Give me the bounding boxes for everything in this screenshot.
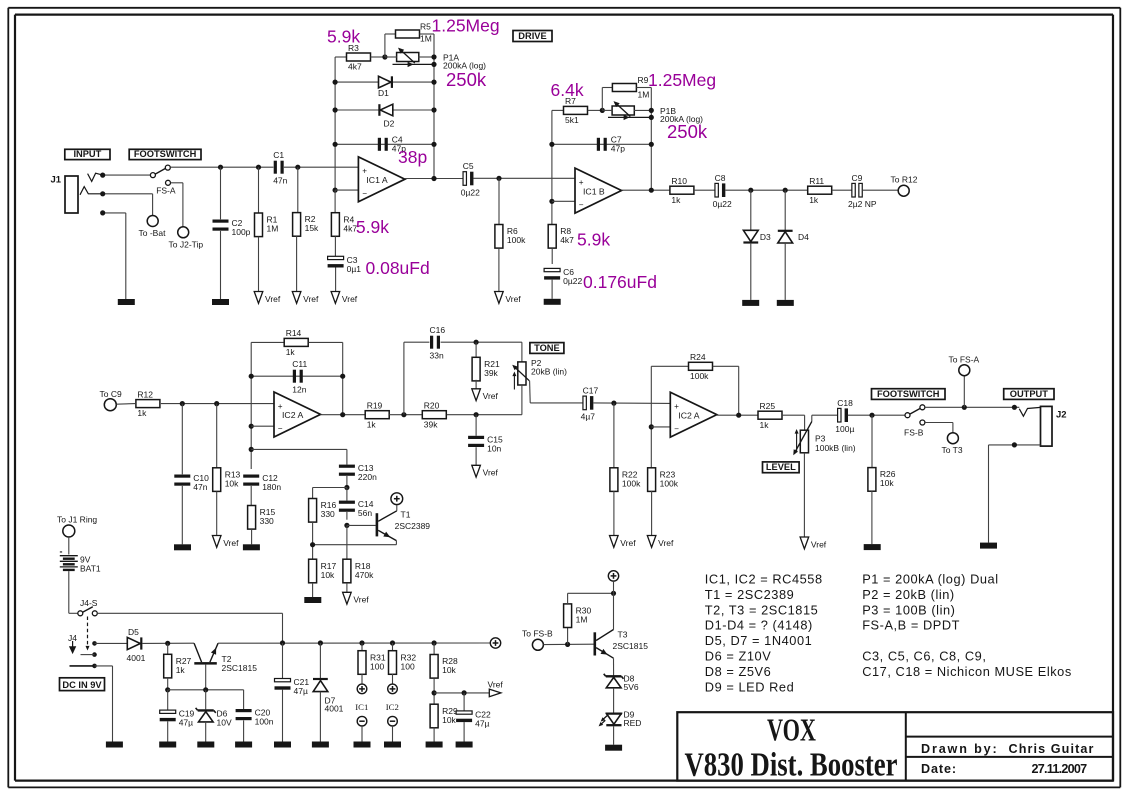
svg-text:T2, T3 = 2SC1815: T2, T3 = 2SC1815 [705, 602, 819, 617]
node IC2B inv [649, 424, 654, 429]
jack J4 pin [70, 641, 76, 653]
ground R17 [304, 597, 321, 603]
node J1 tip [100, 173, 105, 178]
wire C15 up [475, 415, 477, 436]
svg-text:IC2 A: IC2 A [678, 410, 699, 420]
wire R1 dn [258, 237, 260, 292]
wire fb2 col right [650, 88, 652, 191]
terminal To R12 [891, 175, 918, 197]
node P1A wiper [431, 62, 436, 67]
node R27 top [165, 641, 170, 646]
wire J4 to D5 [95, 642, 128, 644]
net Vref R6 [495, 292, 522, 304]
svg-text:−: − [278, 424, 283, 433]
wire R6 up [498, 178, 500, 224]
ground D3 [742, 300, 759, 306]
node C4 r [431, 142, 436, 147]
wire C21 up [282, 643, 284, 679]
net Vref R21 [472, 389, 499, 401]
svg-text:200kA (log): 200kA (log) [443, 61, 486, 71]
svg-text:10k: 10k [321, 570, 335, 580]
wire J4 lever [81, 654, 95, 656]
svg-text:0µ22: 0µ22 [563, 276, 582, 286]
wire C15 dn [475, 447, 477, 465]
resistor R30 [564, 604, 592, 628]
svg-text:DC IN 9V: DC IN 9V [62, 680, 102, 690]
wire C6 dn [551, 280, 553, 299]
svg-text:To -Bat: To -Bat [139, 228, 167, 238]
terminal To J1 Ring [57, 515, 97, 537]
wire fb4 col right [738, 366, 740, 415]
diode D1 [378, 76, 392, 98]
capacitor C18 [835, 398, 854, 434]
wire R5 lead r [420, 33, 435, 35]
svg-text:-: - [60, 547, 63, 557]
wire D4 up [784, 190, 786, 231]
ground C20 [235, 742, 252, 748]
led D9 [599, 710, 642, 728]
svg-text:250k: 250k [446, 69, 487, 90]
svg-text:200kA (log): 200kA (log) [660, 114, 703, 124]
capacitor C16 [430, 325, 446, 361]
svg-text:R10: R10 [671, 176, 687, 186]
J1 ring spring [80, 187, 103, 195]
wire R26 up [871, 415, 873, 468]
node R3 P1A [382, 54, 387, 59]
label FOOTSWITCH 2 [872, 389, 946, 400]
wire R22 dn [613, 491, 615, 536]
capacitor C2 [213, 218, 251, 237]
terminal To FS-B [522, 629, 553, 651]
svg-text:Vref: Vref [620, 538, 636, 548]
terminal To J2-Tip [169, 227, 204, 250]
svg-text:BAT1: BAT1 [80, 563, 101, 573]
svg-text:R12: R12 [137, 389, 153, 399]
wire R17 dn [312, 583, 314, 597]
power pin IC1 - [357, 716, 367, 726]
power pin IC2 - [388, 716, 398, 726]
node R31 top [359, 640, 364, 645]
wire C10 dn [181, 486, 183, 544]
svg-text:TONE: TONE [534, 343, 560, 353]
ground D6 [197, 742, 214, 748]
wire R2 dn [296, 236, 298, 291]
svg-text:100k: 100k [622, 478, 641, 488]
wire C11 row [251, 375, 343, 377]
ground IC1 [354, 742, 371, 748]
wire T3 emit dn [613, 658, 615, 676]
svg-text:56n: 56n [358, 508, 372, 518]
ground D4 [777, 300, 794, 306]
diode D2 [379, 104, 394, 128]
capacitor C1 [273, 150, 287, 186]
svg-text:2SC2389: 2SC2389 [395, 521, 431, 531]
diode D4 [778, 231, 809, 243]
capacitor C3 [328, 255, 362, 274]
svg-text:Vref: Vref [505, 294, 521, 304]
svg-text:1M: 1M [267, 224, 279, 234]
node R30 bot [565, 642, 570, 647]
svg-text:5V6: 5V6 [624, 682, 639, 692]
potentiometer P2 [512, 358, 567, 389]
svg-text:D9 = LED Red: D9 = LED Red [705, 679, 794, 694]
svg-text:C1: C1 [273, 150, 284, 160]
J4 sleeve bar [70, 665, 95, 667]
transistor T2 [194, 643, 257, 673]
wire ring down [152, 194, 154, 216]
node R21 top [474, 340, 479, 345]
svg-text:1M: 1M [420, 34, 432, 44]
node C16 bot [401, 412, 406, 417]
svg-text:Vref: Vref [488, 679, 504, 689]
wire R24 lead l [651, 365, 688, 367]
wire R24 lead r [713, 365, 739, 367]
svg-text:Vref: Vref [811, 539, 827, 549]
capacitor C10 [174, 473, 209, 492]
ground R29 [426, 742, 443, 748]
wire Vref out [434, 692, 489, 694]
resistor R19 [365, 401, 389, 430]
wire T1 emit row [313, 544, 397, 546]
svg-text:38p: 38p [398, 147, 427, 167]
wire C13 dn [346, 476, 348, 488]
svg-text:IC2 A: IC2 A [282, 410, 303, 420]
notes column 2 [862, 572, 1072, 679]
svg-text:To FS-A: To FS-A [949, 354, 980, 364]
svg-text:47n: 47n [273, 176, 287, 186]
wire IC2A inv [251, 425, 274, 427]
svg-text:100k: 100k [690, 371, 709, 381]
svg-text:10V: 10V [217, 717, 232, 727]
capacitor C20 [236, 708, 274, 727]
wire R31 dn [361, 674, 363, 684]
ground C10 [174, 544, 191, 550]
node P1B wiper [649, 115, 654, 120]
wire R14 lead r [309, 341, 343, 343]
svg-text:5.9k: 5.9k [356, 217, 389, 237]
svg-text:1k: 1k [137, 408, 147, 418]
wire P1B lead r [634, 109, 652, 111]
svg-text:1k: 1k [176, 665, 186, 675]
net Vref P3 [800, 537, 827, 549]
terminal To -Bat [139, 216, 167, 239]
svg-text:47µ: 47µ [179, 718, 193, 728]
svg-text:33n: 33n [430, 351, 444, 361]
svg-text:D4: D4 [798, 232, 809, 242]
wire bat dn [68, 571, 70, 613]
node C11 r [340, 374, 345, 379]
resistor R18 [343, 559, 374, 583]
wire main input b [284, 166, 359, 168]
svg-text:R20: R20 [424, 401, 440, 411]
wire C16 row r [441, 341, 522, 343]
node D1 l [333, 80, 338, 85]
svg-text:FS-A: FS-A [156, 186, 176, 196]
wire R20 out [447, 414, 522, 416]
wire D3 dn [750, 243, 752, 300]
wire fb4 col left [650, 366, 652, 468]
wire C19 up [167, 690, 169, 710]
node R32 top [390, 640, 395, 645]
J1 tip spring [88, 173, 103, 181]
wire FS-A to J2 tip [171, 182, 183, 184]
svg-text:R3: R3 [348, 43, 359, 53]
svg-text:J2: J2 [1056, 410, 1067, 421]
wire R9 lead r [636, 87, 651, 89]
wire R27 up [167, 643, 169, 654]
node J4 sleeve [92, 664, 97, 669]
svg-text:39k: 39k [424, 419, 438, 429]
svg-text:Chris Guitar: Chris Guitar [1009, 742, 1095, 756]
wire T1 coll up [396, 505, 398, 511]
wire T2 base dn [205, 665, 207, 690]
svg-text:C11: C11 [292, 359, 307, 369]
node C4 l [333, 142, 338, 147]
svg-text:C5: C5 [463, 161, 474, 171]
net Vref R18 [343, 592, 370, 604]
svg-text:330: 330 [260, 516, 274, 526]
wire C20 dn [243, 720, 245, 741]
wire C2 dn [220, 231, 222, 299]
wire R32 up [392, 643, 394, 651]
zener D8 [604, 673, 639, 692]
svg-text:D1-D4 = ? (4148): D1-D4 = ? (4148) [705, 618, 813, 633]
node J1 ring [100, 191, 105, 196]
wire P1A lead r [418, 56, 434, 58]
node R7 P1B [600, 108, 605, 113]
power pin IC1 + [357, 684, 367, 694]
wire sleeve [103, 212, 126, 214]
wire P2 bot [521, 385, 523, 415]
wire fb3 col left [250, 342, 252, 469]
node D1 r [431, 80, 436, 85]
wire D7 dn [319, 692, 321, 742]
wire D4 dn [784, 243, 786, 300]
resistor R27 [164, 654, 192, 678]
wire R30 dn lead [567, 627, 569, 644]
svg-text:R14: R14 [286, 328, 302, 338]
node T3 coll [611, 591, 616, 596]
svg-text:0.08uFd: 0.08uFd [366, 258, 430, 278]
svg-text:FS-B: FS-B [904, 427, 924, 437]
wire elbow R16 [313, 487, 347, 489]
wire T1 base [347, 524, 376, 526]
svg-text:47µ: 47µ [294, 686, 308, 696]
svg-text:C8: C8 [715, 173, 726, 183]
svg-text:47n: 47n [193, 482, 207, 492]
wire C17 out [593, 402, 670, 405]
net Vref R2 [292, 292, 319, 304]
op-amp U1A [358, 157, 405, 202]
resistor R9 [612, 84, 636, 92]
svg-text:220n: 220n [358, 472, 377, 482]
wire P3 to C18 [812, 414, 838, 416]
node C2 [218, 165, 223, 170]
switch FS-A pole [150, 173, 155, 178]
resistor R31 [358, 651, 386, 675]
op-amp U2B [670, 392, 717, 437]
wire IC1A out [405, 178, 463, 180]
svg-text:2SC1815: 2SC1815 [222, 663, 258, 673]
switch FS-B throw down [920, 420, 925, 425]
svg-text:P3: P3 [815, 433, 826, 443]
power + T1 [391, 493, 403, 505]
svg-text:4k7: 4k7 [348, 62, 362, 72]
wire IC1A inv [335, 189, 358, 191]
resistor R29 [430, 704, 458, 728]
svg-text:To J2-Tip: To J2-Tip [169, 240, 204, 250]
svg-text:RED: RED [624, 718, 642, 728]
node branch T1 [249, 447, 254, 452]
resistor R8 [548, 225, 574, 249]
svg-text:5.9k: 5.9k [577, 230, 610, 250]
node J2 tip [1012, 405, 1017, 410]
svg-text:D6 = Z10V: D6 = Z10V [705, 649, 771, 664]
svg-text:D2: D2 [384, 119, 395, 129]
wire R3 lead r [371, 56, 385, 58]
svg-text:Drawn by:: Drawn by: [921, 742, 999, 756]
resistor R3 [347, 43, 371, 72]
svg-text:To C9: To C9 [100, 389, 122, 399]
switch J4-S throw [92, 611, 97, 616]
node R1 [256, 165, 261, 170]
svg-text:R9: R9 [638, 75, 649, 85]
wire IC1B out [622, 189, 670, 191]
resistor R5 [396, 30, 420, 38]
wire C20 up [243, 690, 245, 709]
svg-text:0µ22: 0µ22 [713, 199, 732, 209]
svg-text:D5: D5 [128, 627, 139, 637]
wire R8 dn [551, 248, 553, 264]
svg-text:10k: 10k [880, 478, 894, 488]
switch FS-B pole [905, 413, 910, 418]
svg-text:IC2: IC2 [386, 702, 399, 712]
svg-text:T1: T1 [401, 510, 411, 520]
net Vref R23 [647, 536, 674, 548]
svg-text:R24: R24 [690, 352, 706, 362]
net Vref R1 [254, 292, 281, 304]
svg-text:4001: 4001 [127, 653, 146, 663]
wire main input [170, 166, 273, 168]
wire C4 [335, 143, 434, 145]
svg-text:39k: 39k [484, 368, 498, 378]
J2 tip spring [1019, 407, 1040, 416]
op-amp U2A [274, 392, 321, 437]
svg-text:1k: 1k [367, 419, 377, 429]
wire R30 top row [568, 592, 614, 594]
svg-text:C9: C9 [852, 173, 863, 183]
wire ToFSB to base [544, 643, 594, 645]
wire fb3 col right [342, 342, 344, 414]
svg-text:1.25Meg: 1.25Meg [648, 70, 716, 90]
potentiometer P3 [793, 422, 855, 456]
wire IC2B inv [651, 426, 670, 428]
wire R14 lead l [251, 341, 284, 343]
svg-text:2µ2 NP: 2µ2 NP [848, 199, 877, 209]
wire supply rail [218, 642, 490, 644]
switch J4-S blade [83, 607, 93, 613]
svg-text:47µ: 47µ [475, 718, 489, 728]
wire J2 sleeve dn [988, 445, 990, 543]
svg-text:100p: 100p [232, 227, 251, 237]
svg-text:27.11.2007: 27.11.2007 [1032, 762, 1088, 776]
wire mid rail [161, 403, 274, 405]
wire C9 out [862, 189, 898, 191]
resistor R32 [389, 651, 417, 675]
node J4 tip [92, 641, 97, 646]
terminal To T3 [942, 433, 963, 455]
node C7 l [549, 142, 554, 147]
capacitor C17 [581, 386, 599, 422]
node IC1A fb [431, 176, 436, 181]
net Vref C15 [472, 465, 499, 477]
wire R7 lead r [588, 109, 603, 111]
wire T3 pwr dn [613, 581, 615, 593]
node D6 top [203, 687, 208, 692]
diode D3 [743, 230, 771, 242]
wire R13 up [216, 404, 218, 468]
wire P2 wiper dn [529, 381, 532, 403]
node C21 top [280, 640, 285, 645]
wire J4S long [97, 612, 282, 614]
svg-text:D8 = Z5V6: D8 = Z5V6 [705, 664, 771, 679]
terminal To FS-A [949, 354, 980, 375]
notes column 1 [705, 572, 823, 695]
resistor R22 [610, 468, 641, 492]
svg-text:D3: D3 [760, 232, 771, 242]
resistor R25 [758, 401, 782, 430]
svg-text:−: − [362, 189, 367, 198]
resistor R28 [430, 655, 458, 679]
jack J2 [1041, 406, 1053, 446]
wire branch T1 [251, 448, 347, 450]
terminal To C9 [100, 389, 122, 411]
power + rail [490, 638, 500, 648]
capacitor C5 [461, 161, 480, 197]
svg-text:P3 = 100B (lin): P3 = 100B (lin) [862, 602, 955, 617]
wire R25 out [782, 414, 805, 416]
wire IC1B inv [552, 200, 575, 202]
wire R1 up [258, 167, 260, 213]
capacitor C8 [713, 173, 732, 209]
wire R32 dn [392, 674, 394, 684]
op-amp U1B [575, 168, 622, 213]
jack J1 [65, 176, 78, 213]
wire tip to FS-A [103, 174, 151, 176]
svg-text:−: − [674, 424, 679, 433]
node IC1B fb [649, 188, 654, 193]
svg-text:C16: C16 [430, 325, 446, 335]
svg-text:12n: 12n [292, 385, 306, 395]
svg-text:1M: 1M [638, 90, 650, 100]
wire IC1 dn [361, 726, 363, 742]
wire C18 out [848, 414, 905, 416]
capacitor C11 [292, 359, 307, 395]
node IC2A inv [249, 424, 254, 429]
node R13 [214, 401, 219, 406]
wire ring [103, 193, 153, 195]
ground J4 [106, 742, 123, 748]
wire D5 to T2 [142, 642, 194, 644]
resistor R12 [136, 389, 160, 418]
svg-text:IC1: IC1 [355, 702, 368, 712]
node ToFSA [962, 405, 967, 410]
svg-text:C17: C17 [583, 386, 599, 396]
svg-text:Vref: Vref [483, 391, 499, 401]
potentiometer P1B [608, 101, 703, 124]
wire R21 dn [475, 380, 477, 389]
wire wiper to C17 [530, 402, 583, 404]
